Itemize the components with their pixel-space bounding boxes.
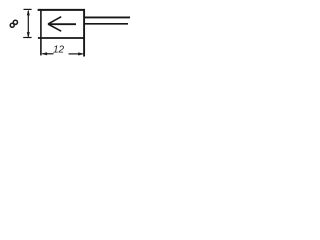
svg-text:12: 12: [53, 45, 65, 56]
arrow inside box (points left): [48, 17, 76, 32]
dimension arrowhead up: [27, 10, 30, 16]
dimension arrowhead left: [41, 52, 47, 55]
box body (rectangle outline): [38, 9, 85, 56]
dimension arrowhead down: [27, 32, 30, 38]
vertical dimension line (height): [23, 9, 31, 37]
horizontal dimension line (width): [43, 53, 83, 55]
lead wire upper: [85, 16, 130, 18]
dimension arrowhead right: [78, 52, 84, 55]
lead wire lower: [85, 23, 128, 25]
label 8 (rotated, height dimension): [10, 20, 17, 27]
